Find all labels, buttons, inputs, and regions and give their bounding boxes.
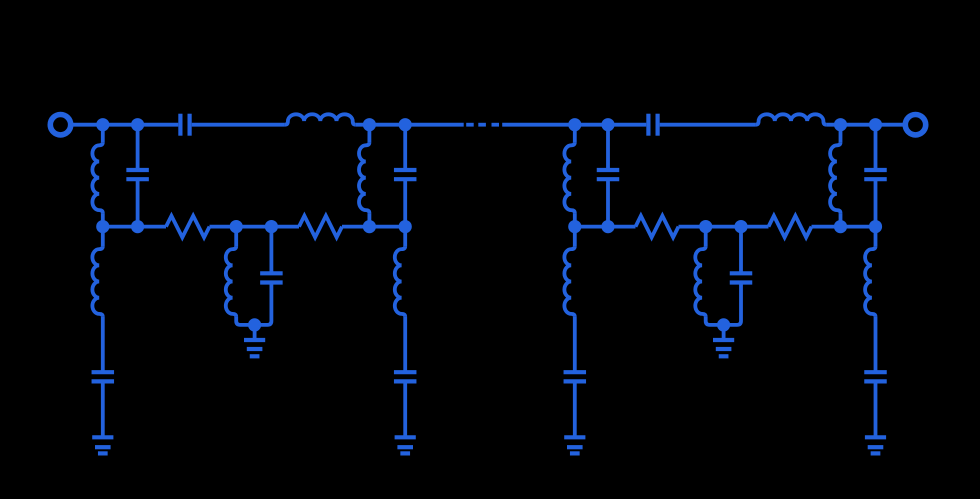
node top-4: [399, 118, 412, 131]
ground G6: [865, 435, 886, 439]
node low-3: [230, 220, 243, 233]
node ground-junction-2: [717, 318, 730, 331]
resistor R4: [769, 216, 812, 238]
shunt capacitor C8: [730, 271, 753, 275]
resistor R1: [166, 216, 210, 238]
wire: [73, 123, 103, 127]
wire: [812, 225, 876, 229]
wire: [606, 125, 610, 170]
wire: [101, 381, 105, 437]
wire: [210, 225, 300, 229]
shunt inductor L7: [226, 246, 236, 317]
shunt inductor L9: [92, 246, 102, 317]
ground G5: [564, 435, 585, 439]
wire: [101, 227, 105, 247]
node low-4: [265, 220, 278, 233]
shunt inductor L5: [564, 142, 574, 213]
wire: [606, 179, 610, 226]
shunt inductor L11: [564, 246, 574, 317]
node low-12: [869, 220, 882, 233]
wire: [403, 381, 407, 437]
wire: [575, 123, 647, 127]
node top-2: [131, 118, 144, 131]
node low-2: [131, 220, 144, 233]
shunt inductor L12: [865, 246, 875, 317]
node low-7: [568, 220, 581, 233]
wire: [136, 179, 140, 226]
ground G2: [713, 338, 734, 342]
ground G4: [395, 435, 416, 439]
wire: [573, 125, 577, 143]
wire: [367, 125, 371, 143]
shunt inductor L10: [395, 246, 405, 317]
ground G1: [244, 338, 265, 342]
shunt capacitor C3: [126, 168, 149, 172]
resistor R2: [299, 216, 342, 238]
resistor R3: [636, 216, 679, 238]
capacitor C10: [394, 370, 417, 374]
series capacitor C1: [178, 114, 182, 136]
wire: [660, 123, 756, 127]
shunt capacitor C4: [394, 168, 417, 172]
node low-11: [834, 220, 847, 233]
node top-5: [568, 118, 581, 131]
ground G3: [92, 435, 113, 439]
wire: [706, 317, 724, 325]
node top-1: [96, 118, 109, 131]
wire: [367, 213, 371, 227]
wire: [502, 123, 575, 127]
wire: [236, 317, 254, 325]
wire: [575, 225, 636, 229]
wire: [234, 227, 238, 247]
wire: [253, 325, 257, 339]
wire: [356, 123, 464, 127]
wire: [826, 123, 903, 127]
terminal port P1: [50, 115, 70, 135]
shunt inductor L3: [92, 142, 102, 213]
wire: [874, 227, 878, 247]
shunt inductor L6: [830, 142, 840, 213]
node low-8: [601, 220, 614, 233]
wire: [403, 179, 407, 226]
shunt capacitor C7: [260, 271, 283, 275]
series capacitor C2: [646, 114, 650, 136]
wire: [704, 227, 708, 247]
series inductor L2: [756, 114, 827, 124]
wire: [724, 283, 741, 325]
wire: [101, 125, 105, 143]
wire: [874, 317, 878, 372]
node top-8: [869, 118, 882, 131]
node top-7: [834, 118, 847, 131]
wire: [342, 225, 405, 229]
node low-9: [699, 220, 712, 233]
node low-10: [734, 220, 747, 233]
wire: [839, 125, 843, 143]
shunt capacitor C6: [864, 168, 887, 172]
wire: [136, 125, 140, 170]
node low-6: [399, 220, 412, 233]
wire: [573, 381, 577, 437]
wire: [269, 227, 273, 274]
wire: [739, 227, 743, 274]
node low-1: [96, 220, 109, 233]
shunt inductor L4: [359, 142, 369, 213]
wire: [839, 213, 843, 227]
wire: [403, 317, 407, 372]
wire: [103, 225, 166, 229]
wire: [101, 213, 105, 227]
wire: [874, 381, 878, 437]
capacitor C9: [92, 370, 115, 374]
node low-5: [363, 220, 376, 233]
node ground-junction-1: [248, 318, 261, 331]
wire: [192, 123, 285, 127]
node top-3: [363, 118, 376, 131]
wire: [874, 179, 878, 226]
wire: [101, 317, 105, 372]
capacitor C12: [864, 370, 887, 374]
terminal port P2: [905, 115, 925, 135]
wire: [255, 283, 272, 325]
shunt capacitor C5: [597, 168, 620, 172]
node top-6: [601, 118, 614, 131]
wire: [573, 227, 577, 247]
wire: [403, 125, 407, 170]
series inductor L1: [285, 114, 356, 124]
wire: [573, 317, 577, 372]
wire: [403, 227, 407, 247]
wire: [103, 123, 179, 127]
continuation dots: [466, 123, 474, 127]
wire: [573, 213, 577, 227]
wire: [679, 225, 769, 229]
wire: [874, 125, 878, 170]
capacitor C11: [564, 370, 587, 374]
wire: [722, 325, 726, 339]
shunt inductor L8: [695, 246, 705, 317]
